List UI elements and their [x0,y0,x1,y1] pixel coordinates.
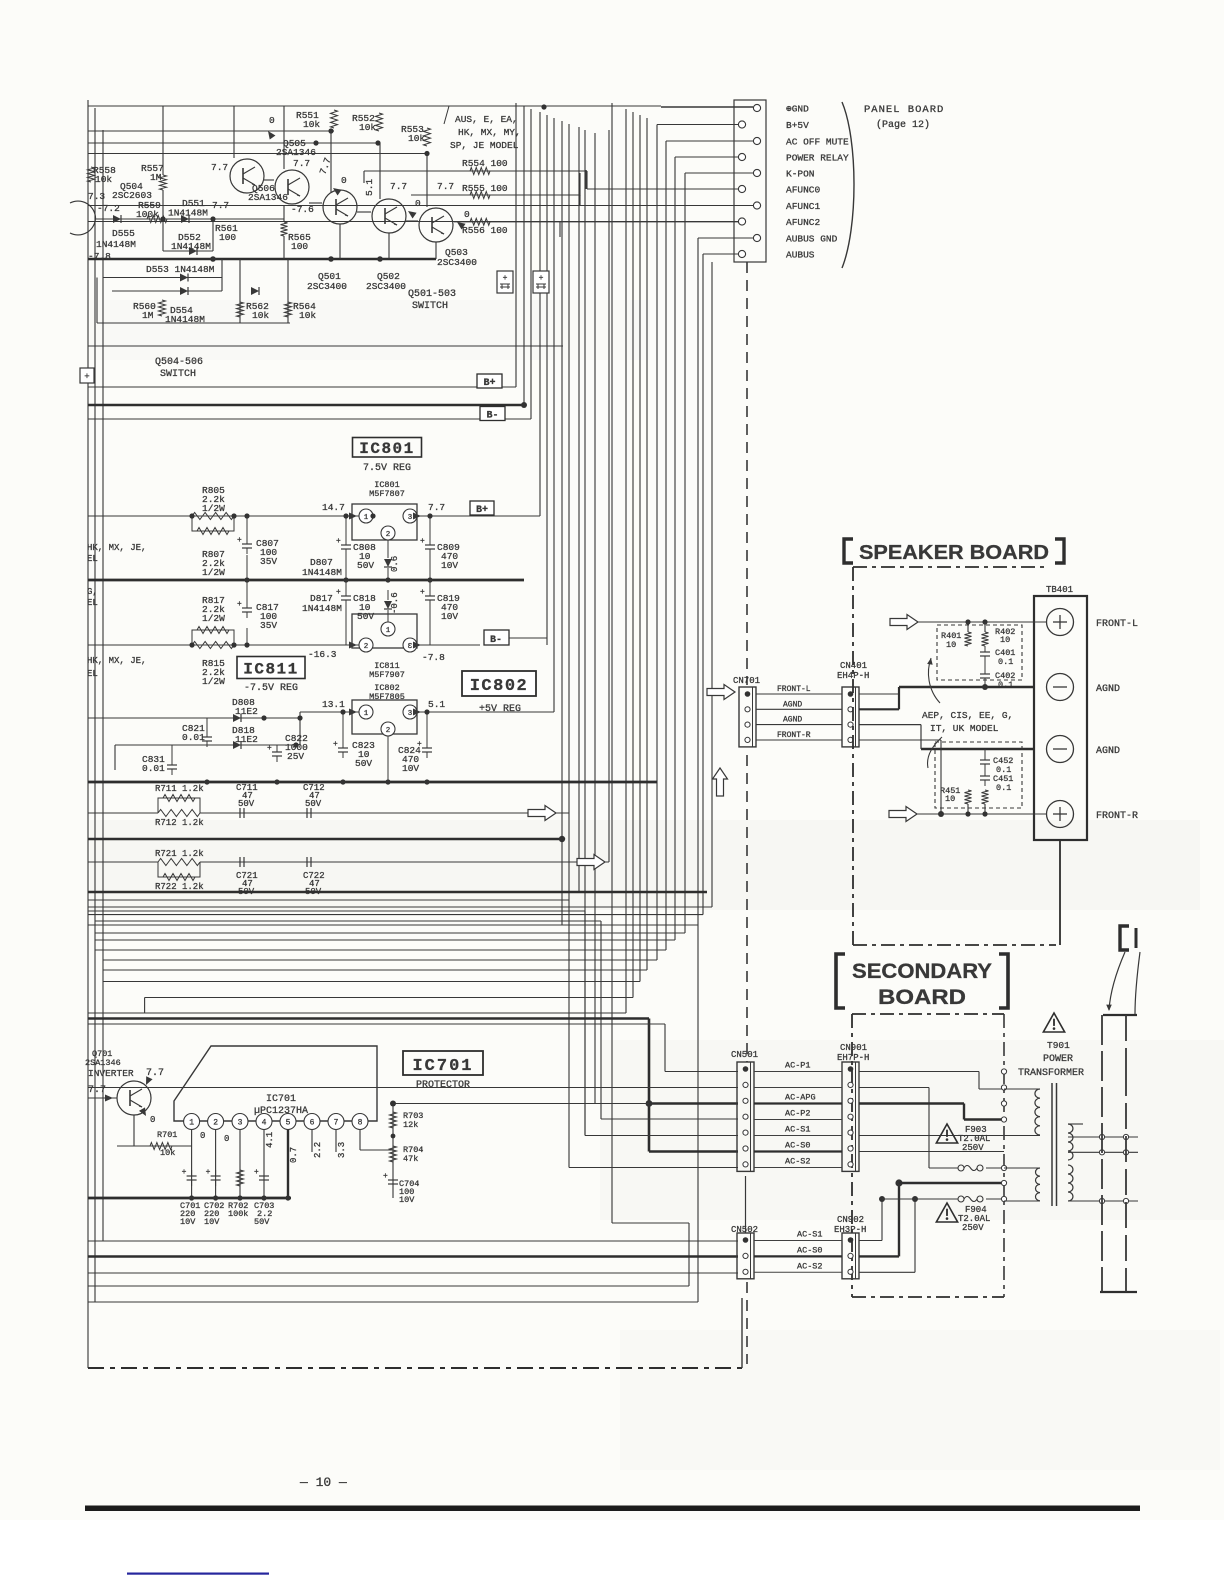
svg-text:11E2: 11E2 [235,734,258,745]
svg-text:1N4148M: 1N4148M [171,241,211,252]
svg-text:CN701: CN701 [733,676,760,686]
svg-text:7.7: 7.7 [88,1085,106,1096]
svg-text:-0.6: -0.6 [390,592,400,614]
svg-text:AFUNC0: AFUNC0 [786,185,821,196]
svg-text:1: 1 [364,514,369,522]
svg-text:10k: 10k [299,310,316,321]
svg-text:10V: 10V [441,611,458,622]
svg-text:SP, JE MODEL: SP, JE MODEL [450,140,519,151]
svg-text:FRONT-R: FRONT-R [1096,811,1138,822]
svg-text:7.7: 7.7 [437,181,454,192]
svg-text:Q504-506: Q504-506 [155,357,203,368]
svg-text:FRONT-L: FRONT-L [1096,619,1138,630]
svg-text:Q501-503: Q501-503 [408,289,456,300]
svg-text:INVERTER: INVERTER [88,1068,134,1079]
svg-text:0: 0 [415,198,421,209]
svg-text:T901: T901 [1047,1040,1070,1051]
svg-text:47k: 47k [403,1154,418,1164]
svg-text:1N4148M: 1N4148M [302,603,342,614]
svg-text:(Page 12): (Page 12) [876,119,930,131]
svg-text:1N4148M: 1N4148M [302,567,342,578]
svg-text:2SC3400: 2SC3400 [366,281,406,292]
svg-text:AC-S0: AC-S0 [797,1245,823,1255]
svg-text:+: + [182,1168,187,1177]
svg-text:1/2W: 1/2W [202,503,225,514]
svg-text:50V: 50V [305,799,322,809]
svg-text:M5F7907: M5F7907 [369,670,405,680]
svg-text:AC-S0: AC-S0 [785,1141,811,1151]
svg-text:-7.8: -7.8 [88,251,111,262]
svg-text:0.6: 0.6 [390,556,400,572]
svg-text:50V: 50V [355,758,372,769]
svg-text:3.3: 3.3 [337,1142,347,1158]
svg-text:-7.6: -7.6 [291,204,314,215]
svg-text:-16.3: -16.3 [308,649,337,660]
svg-text:2: 2 [386,727,391,735]
svg-text:250V: 250V [962,1143,984,1153]
svg-text:100: 100 [291,241,308,252]
svg-text:G,: G, [87,587,98,597]
svg-text:3: 3 [408,514,413,522]
svg-text:7.5V REG: 7.5V REG [363,463,411,474]
svg-text:0: 0 [341,175,347,186]
svg-text:0.01: 0.01 [182,732,205,743]
svg-text:+: + [84,372,89,382]
svg-text:5.1: 5.1 [428,699,445,710]
svg-text:POWER: POWER [1043,1054,1073,1065]
svg-text:M5F7807: M5F7807 [369,489,405,499]
svg-text:B+: B+ [483,378,495,389]
svg-text:+: + [539,274,544,283]
svg-text:4: 4 [262,1119,267,1128]
svg-text:1/2W: 1/2W [202,676,225,687]
svg-text:0.1: 0.1 [998,657,1013,667]
svg-text:1/2W: 1/2W [202,613,225,624]
svg-text:AC-P2: AC-P2 [785,1109,811,1119]
svg-text:TRANSFORMER: TRANSFORMER [1018,1068,1084,1079]
svg-text:AGND: AGND [1096,684,1120,695]
svg-text:IC701: IC701 [266,1094,296,1105]
svg-text:AC-APG: AC-APG [785,1093,816,1103]
svg-text:1N4148M: 1N4148M [96,239,136,250]
svg-text:AEP, CIS, EE, G,: AEP, CIS, EE, G, [922,710,1013,721]
svg-text:SPEAKER BOARD: SPEAKER BOARD [859,542,1049,564]
svg-text:1M: 1M [142,310,154,321]
svg-text:Ɛ: Ɛ [408,643,413,651]
svg-text:+: + [503,274,508,283]
svg-text:B+: B+ [476,505,488,516]
svg-text:35V: 35V [260,620,277,631]
svg-text:AUS, E, EA,: AUS, E, EA, [455,114,518,125]
svg-text:2: 2 [213,1119,218,1128]
svg-text:R711 1.2k: R711 1.2k [155,784,204,794]
svg-text:AUBUS: AUBUS [786,250,815,261]
svg-text:13.1: 13.1 [322,699,345,710]
svg-text:AC OFF MUTE: AC OFF MUTE [786,137,849,148]
svg-text:8: 8 [358,1119,363,1128]
svg-text:7.7: 7.7 [293,158,310,169]
svg-text:1N4148M: 1N4148M [165,314,205,325]
svg-text:TB401: TB401 [1046,585,1073,595]
svg-text:+: + [206,1168,211,1177]
svg-text:IC701: IC701 [412,1057,473,1076]
svg-text:+: + [336,537,341,546]
svg-text:K-PON: K-PON [786,169,815,180]
svg-text:+: + [420,537,425,546]
svg-text:PROTECTOR: PROTECTOR [416,1080,470,1091]
svg-text:+: + [417,740,422,749]
svg-text:10k: 10k [160,1148,175,1158]
svg-text:2SC3400: 2SC3400 [437,257,477,268]
svg-text:R701: R701 [157,1130,177,1140]
svg-text:+: + [336,588,341,597]
svg-text:D555: D555 [112,228,135,239]
svg-text:10V: 10V [402,763,419,774]
svg-text:AC-S2: AC-S2 [797,1261,823,1271]
svg-text:1: 1 [189,1119,194,1128]
svg-text:11E2: 11E2 [235,706,258,717]
svg-text:25V: 25V [287,751,304,762]
svg-text:250V: 250V [962,1223,984,1233]
svg-text:1/2W: 1/2W [202,567,225,578]
svg-text:FRONT-R: FRONT-R [777,731,811,740]
svg-text:10k: 10k [408,133,425,144]
svg-text:+: + [333,740,338,749]
svg-text:10k: 10k [303,119,320,130]
svg-text:-7.8: -7.8 [422,652,445,663]
svg-text:35V: 35V [260,556,277,567]
svg-text:1: 1 [386,627,391,635]
svg-text:5.1: 5.1 [364,179,375,196]
svg-text:IT, UK MODEL: IT, UK MODEL [930,723,999,734]
svg-text:2: 2 [386,531,391,539]
svg-text:AC-S2: AC-S2 [785,1157,811,1167]
svg-text:0: 0 [150,1115,155,1125]
svg-text:3: 3 [238,1119,243,1128]
svg-text:100k: 100k [136,209,159,220]
svg-text:AGND: AGND [1096,746,1120,757]
svg-text:1M: 1M [150,172,162,183]
svg-text:R721 1.2k: R721 1.2k [155,849,204,859]
svg-text:10: 10 [945,794,955,804]
svg-text:10: 10 [1000,635,1010,645]
svg-text:10k: 10k [95,174,112,185]
svg-text:— 10 —: — 10 — [299,1475,347,1490]
svg-text:⊕GND: ⊕GND [786,104,809,115]
svg-text:+: + [254,1168,259,1177]
svg-text:-7.5V REG: -7.5V REG [244,683,298,694]
svg-text:7.7: 7.7 [428,502,445,513]
svg-text:CN901: CN901 [840,1043,867,1053]
svg-text:10V: 10V [180,1217,196,1227]
svg-text:R556 100: R556 100 [462,225,508,236]
svg-text:14.7: 14.7 [322,502,345,513]
svg-text:10k: 10k [359,122,376,133]
svg-text:+: + [420,588,425,597]
svg-text:7: 7 [334,1119,339,1128]
svg-text:AC-P1: AC-P1 [785,1061,811,1071]
svg-text:FRONT-L: FRONT-L [777,685,811,694]
svg-text:10V: 10V [399,1195,415,1205]
svg-text:PANEL BOARD: PANEL BOARD [864,104,944,116]
svg-text:+: + [267,744,272,753]
svg-text:5: 5 [286,1119,291,1128]
svg-text:-7.2: -7.2 [97,203,120,214]
svg-text:EL: EL [87,669,98,679]
svg-text:IC801: IC801 [359,440,415,458]
svg-text:0.01: 0.01 [142,763,165,774]
svg-text:0.7: 0.7 [289,1147,299,1163]
svg-text:B-: B- [486,411,498,422]
svg-text:50V: 50V [238,799,255,809]
svg-text:100: 100 [219,232,236,243]
svg-text:HK, MX, JE,: HK, MX, JE, [87,543,146,553]
svg-text:HK, MX, JE,: HK, MX, JE, [87,656,146,666]
svg-text:7.3: 7.3 [88,191,105,202]
svg-text:SWITCH: SWITCH [412,301,448,312]
svg-text:0: 0 [200,1131,205,1141]
svg-text:AC-S1: AC-S1 [785,1125,811,1135]
svg-text:6: 6 [310,1119,315,1128]
svg-text:EL: EL [87,554,98,564]
svg-text:IC811: IC811 [243,661,299,679]
svg-text:7.7: 7.7 [146,1068,164,1079]
svg-text:2SA1346: 2SA1346 [276,147,316,158]
svg-text:0: 0 [224,1134,229,1144]
svg-text:+5V REG: +5V REG [479,704,521,715]
svg-text:B-: B- [490,635,502,646]
svg-text:1N4148M: 1N4148M [168,208,208,219]
svg-text:10k: 10k [252,310,269,321]
svg-text:2SA1346: 2SA1346 [85,1058,121,1068]
svg-text:HK, MX, MY,: HK, MX, MY, [458,127,521,138]
svg-text:2.2: 2.2 [313,1142,323,1158]
svg-text:EL: EL [87,598,98,608]
svg-text:0: 0 [269,115,275,126]
svg-text:1: 1 [364,710,369,718]
svg-text:50V: 50V [357,611,374,622]
svg-text:3: 3 [408,710,413,718]
svg-text:SECONDARY: SECONDARY [852,960,992,983]
svg-text:50V: 50V [254,1217,270,1227]
svg-text:CN501: CN501 [731,1050,758,1060]
svg-text:7.7: 7.7 [211,162,228,173]
svg-text:R555 100: R555 100 [462,183,508,194]
svg-text:100k: 100k [228,1209,248,1219]
svg-text:AC-S1: AC-S1 [797,1230,823,1240]
svg-text:CN902: CN902 [837,1215,864,1225]
svg-text:2SC3400: 2SC3400 [307,281,347,292]
svg-text:10: 10 [946,640,956,650]
svg-text:12k: 12k [403,1120,418,1130]
svg-text:IC802: IC802 [470,677,529,696]
svg-text:7.7: 7.7 [212,200,229,211]
svg-text:0.1: 0.1 [998,680,1013,690]
svg-text:R712 1.2k: R712 1.2k [155,818,204,828]
svg-text:AGND: AGND [783,716,802,725]
svg-text:+: + [383,1172,388,1181]
svg-text:SWITCH: SWITCH [160,369,196,380]
svg-text:AFUNC1: AFUNC1 [786,201,821,212]
svg-text:R722 1.2k: R722 1.2k [155,882,204,892]
svg-text:7.7: 7.7 [390,181,407,192]
svg-text:BOARD: BOARD [878,986,966,1009]
svg-text:D553 1N4148M: D553 1N4148M [146,264,215,275]
svg-text:10V: 10V [204,1217,220,1227]
svg-text:0: 0 [464,209,470,220]
svg-text:2SA1346: 2SA1346 [248,192,288,203]
svg-text:4.1: 4.1 [265,1132,275,1148]
svg-text:0.1: 0.1 [996,783,1011,793]
svg-text:AUBUS GND: AUBUS GND [786,234,838,245]
svg-text:AGND: AGND [783,700,802,709]
svg-text:AFUNC2: AFUNC2 [786,217,821,228]
svg-text:2: 2 [364,643,369,651]
svg-text:10V: 10V [441,560,458,571]
svg-text:+: + [237,600,242,609]
svg-text:POWER RELAY: POWER RELAY [786,153,849,164]
svg-text:B+5V: B+5V [786,120,809,131]
svg-text:R554 100: R554 100 [462,158,508,169]
svg-text:+: + [237,536,242,545]
svg-text:50V: 50V [357,560,374,571]
